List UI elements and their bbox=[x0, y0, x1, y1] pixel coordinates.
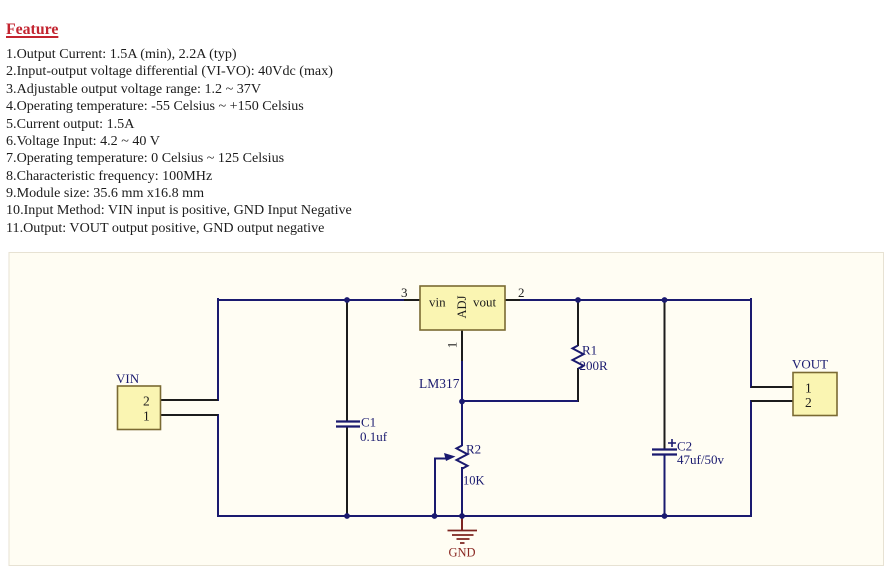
node ADJ junction bbox=[459, 399, 465, 405]
node top rail / R1 bbox=[575, 297, 581, 303]
wire VOUT pin 2 stub bbox=[752, 400, 793, 402]
wire bottom rail bbox=[218, 515, 751, 517]
connector J-VIN bbox=[116, 371, 161, 430]
wire right vertical lower bbox=[750, 401, 752, 516]
node junction dots bbox=[344, 297, 667, 519]
wire C2 lower pin bbox=[664, 456, 666, 515]
svg-text:R1: R1 bbox=[582, 343, 597, 358]
svg-text:C1: C1 bbox=[361, 415, 376, 430]
ground symbol bbox=[448, 517, 478, 560]
node top rail / C2 bbox=[662, 297, 668, 303]
wire C2 upper pin bbox=[664, 301, 666, 448]
wire left vertical lower bbox=[217, 415, 219, 516]
svg-text:vout: vout bbox=[473, 295, 497, 310]
wire left vertical upper bbox=[217, 299, 219, 400]
svg-text:1: 1 bbox=[143, 409, 150, 424]
wire R1 lower pin bbox=[577, 369, 579, 401]
wire VIN pin 1 stub bbox=[162, 414, 217, 416]
capacitor C1 bbox=[336, 415, 388, 445]
wire R1 bottom to ADJ node bbox=[462, 400, 577, 402]
svg-text:R2: R2 bbox=[466, 442, 481, 457]
svg-text:47uf/50v: 47uf/50v bbox=[677, 452, 724, 467]
feature text block bbox=[5, 0, 7, 1]
svg-text:VOUT: VOUT bbox=[792, 357, 828, 372]
resistor R2 potentiometer bbox=[435, 442, 485, 488]
svg-text:GND: GND bbox=[448, 546, 475, 560]
svg-text:ADJ: ADJ bbox=[455, 295, 469, 318]
wire C1 lower pin bbox=[346, 428, 348, 515]
node bottom rail / GND bbox=[459, 513, 465, 519]
wire top rail left bbox=[218, 299, 407, 301]
connector J-VOUT bbox=[792, 357, 837, 416]
wire U1 pin 2 stub bbox=[505, 299, 519, 301]
wire ADJ node vertical bbox=[461, 362, 463, 445]
svg-text:0.1uf: 0.1uf bbox=[360, 429, 388, 444]
wire U1 pin 1 stub bbox=[461, 330, 463, 362]
svg-text:1: 1 bbox=[445, 342, 460, 349]
wire VOUT pin 1 stub bbox=[752, 386, 793, 388]
svg-text:2: 2 bbox=[518, 285, 525, 300]
svg-text:2: 2 bbox=[143, 394, 150, 409]
wire VIN pin 2 stub bbox=[162, 399, 217, 401]
node bottom rail / R2 wiper bbox=[432, 513, 438, 519]
node top rail / C1 bbox=[344, 297, 350, 303]
svg-text:VIN: VIN bbox=[116, 371, 140, 386]
svg-text:10K: 10K bbox=[463, 474, 485, 488]
wire R1 upper pin bbox=[577, 301, 579, 345]
svg-text:200R: 200R bbox=[580, 358, 609, 373]
wire R2 wiper vertical bbox=[434, 459, 436, 516]
wire top rail right bbox=[518, 299, 751, 301]
wire U1 pin 3 stub bbox=[405, 299, 420, 301]
node bottom rail / C2 bbox=[662, 513, 668, 519]
svg-text:vin: vin bbox=[429, 295, 446, 310]
wire right vertical upper bbox=[750, 299, 752, 387]
svg-text:2: 2 bbox=[805, 395, 812, 410]
resistor R1 bbox=[573, 343, 609, 374]
node bottom rail / C1 bbox=[344, 513, 350, 519]
wire C1 upper pin bbox=[346, 301, 348, 420]
svg-text:LM317: LM317 bbox=[419, 376, 460, 391]
svg-text:3: 3 bbox=[401, 285, 408, 300]
wire R2 bottom to rail bbox=[461, 468, 463, 515]
svg-text:1: 1 bbox=[805, 381, 812, 396]
op-amp U1 LM317 body bbox=[420, 286, 505, 330]
capacitor C2 polarized bbox=[652, 439, 724, 468]
